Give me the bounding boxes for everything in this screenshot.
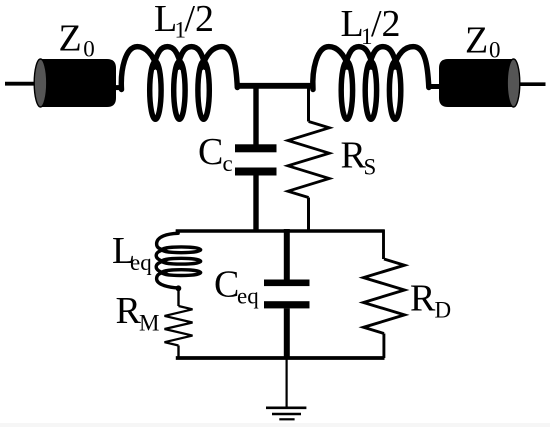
svg-text:eq: eq — [130, 250, 152, 275]
svg-text:eq: eq — [237, 284, 259, 309]
svg-text:R: R — [116, 290, 142, 332]
svg-text:M: M — [139, 311, 159, 336]
svg-text:C: C — [198, 131, 223, 173]
svg-text:Z: Z — [59, 18, 82, 60]
svg-text:0: 0 — [489, 37, 501, 62]
svg-text:R: R — [410, 278, 436, 320]
svg-text:c: c — [223, 151, 233, 176]
svg-text:S: S — [364, 154, 377, 179]
svg-text:D: D — [435, 297, 452, 322]
svg-text:/2: /2 — [371, 3, 401, 45]
svg-text:C: C — [214, 264, 239, 306]
svg-text:0: 0 — [83, 36, 95, 61]
svg-text:/2: /2 — [185, 0, 215, 40]
svg-text:Z: Z — [465, 19, 488, 61]
